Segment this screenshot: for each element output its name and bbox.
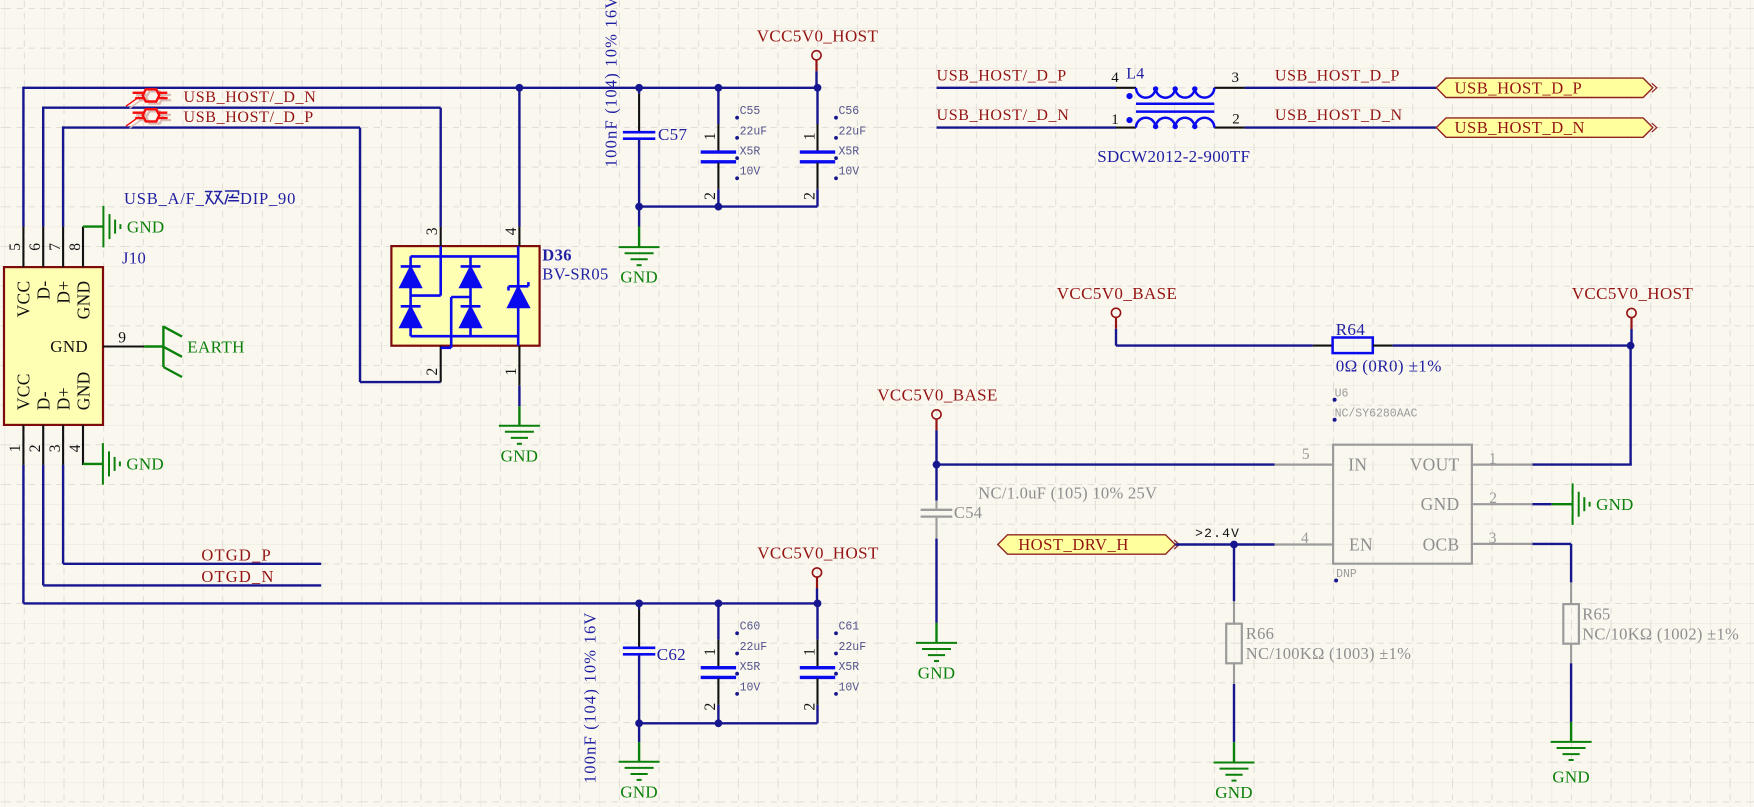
- svg-text:USB_HOST/_D_N: USB_HOST/_D_N: [184, 89, 317, 106]
- svg-text:USB_HOST_D_P: USB_HOST_D_P: [1455, 78, 1583, 97]
- GND under D36 pin1: [518, 406, 520, 426]
- junction (718.4,87.8): [715, 84, 723, 92]
- wire USB_HOST/_D_P from J10 pin7 to D36 pin2: [63, 126, 360, 128]
- svg-text:C54: C54: [954, 503, 982, 522]
- junction (639.1,206.6): [635, 203, 643, 211]
- J10 pin 7: [62, 227, 64, 268]
- svg-text:4: 4: [1301, 530, 1309, 547]
- svg-text:OTGD_P: OTGD_P: [201, 545, 271, 564]
- junction (718.4,206.6): [715, 203, 723, 211]
- junction (639.1,87.8): [635, 84, 643, 92]
- svg-text:DIP_90: DIP_90: [240, 189, 296, 208]
- svg-text:3: 3: [1232, 70, 1240, 86]
- junction (639.1,603.4): [635, 600, 643, 608]
- svg-text:GND: GND: [73, 281, 93, 320]
- svg-text:C55: C55: [740, 105, 761, 118]
- svg-text:22uF: 22uF: [839, 125, 867, 138]
- svg-text:OTGD_N: OTGD_N: [201, 567, 274, 586]
- svg-text:>2.4V: >2.4V: [1195, 526, 1240, 541]
- wire OCB to R65: [1532, 543, 1571, 545]
- junction (817.5,87.8): [814, 84, 822, 92]
- U6 pin 4 EN: [1275, 543, 1334, 545]
- svg-text:D-: D-: [34, 281, 54, 300]
- junction (1630.6,345.6): [1627, 342, 1635, 350]
- svg-text:GND: GND: [620, 782, 657, 801]
- svg-text:USB_HOST_D_N: USB_HOST_D_N: [1275, 107, 1403, 124]
- svg-text:GND: GND: [73, 371, 93, 410]
- svg-text:C57: C57: [658, 125, 687, 144]
- svg-text:R64: R64: [1336, 320, 1366, 339]
- svg-text:22uF: 22uF: [740, 125, 768, 138]
- svg-text:USB_HOST_D_P: USB_HOST_D_P: [1275, 67, 1400, 84]
- D36 pin 2: [440, 346, 442, 382]
- svg-text:USB_HOST/_D_N: USB_HOST/_D_N: [937, 107, 1070, 124]
- U6 pin 1 VOUT: [1472, 464, 1533, 466]
- svg-text:USB_HOST/_D_P: USB_HOST/_D_P: [937, 67, 1067, 84]
- svg-text:VCC: VCC: [14, 373, 34, 410]
- J10 pin 1: [22, 425, 24, 465]
- wire IN net: [937, 463, 1275, 465]
- svg-text:GND: GND: [501, 446, 538, 465]
- svg-text:C60: C60: [740, 621, 761, 634]
- GND under R66: [1233, 742, 1235, 762]
- svg-text:2: 2: [27, 444, 44, 452]
- svg-text:22uF: 22uF: [839, 641, 867, 654]
- D36 pin 4: [518, 88, 520, 227]
- svg-text:X5R: X5R: [839, 146, 860, 159]
- capacitor C54 (NC, gray): [935, 465, 937, 501]
- L4 pins black: [1116, 87, 1136, 89]
- svg-text:D-: D-: [34, 391, 54, 410]
- wire OTGD_N from J10 pin2: [42, 465, 44, 586]
- svg-text:NC/1.0uF (105) 10% 25V: NC/1.0uF (105) 10% 25V: [978, 483, 1157, 502]
- GND under C57: [638, 207, 640, 227]
- GND under C54: [935, 623, 937, 643]
- svg-text:X5R: X5R: [740, 661, 761, 674]
- svg-text:HOST_DRV_H: HOST_DRV_H: [1018, 535, 1129, 554]
- svg-text:10V: 10V: [839, 681, 860, 694]
- svg-text:DNP: DNP: [1336, 568, 1357, 581]
- resistor R64: [1313, 345, 1333, 347]
- GND at U6 pin2 (rotated): [1532, 503, 1551, 505]
- wire L4 pin2 to port USB_HOST_D_N: [1245, 126, 1437, 128]
- svg-text:X5R: X5R: [740, 146, 761, 159]
- svg-text:1: 1: [503, 367, 520, 375]
- capacitor C60: [717, 603, 719, 639]
- svg-text:100nF (104) 10% 16V: 100nF (104) 10% 16V: [602, 0, 621, 167]
- resistor R65 (NC, gray): [1570, 582, 1572, 604]
- svg-text:C62: C62: [657, 645, 686, 664]
- svg-text:GND: GND: [1421, 494, 1460, 514]
- junction (936.5,464.6): [933, 461, 941, 469]
- svg-text:1: 1: [702, 132, 719, 140]
- wire USB_HOST/_D_N into L4 pin1: [937, 126, 1117, 128]
- svg-text:NC/SY6280AAC: NC/SY6280AAC: [1335, 407, 1418, 420]
- U6 pin 2 GND: [1472, 503, 1533, 505]
- J10 pin 8: [82, 227, 84, 268]
- U6 pin 5 IN: [1275, 464, 1334, 466]
- svg-text:VCC5V0_BASE: VCC5V0_BASE: [1057, 284, 1178, 303]
- svg-text:10V: 10V: [740, 681, 761, 694]
- svg-text:2: 2: [424, 367, 441, 375]
- J10 pin 3: [62, 425, 64, 465]
- svg-text:VCC5V0_HOST: VCC5V0_HOST: [1572, 284, 1694, 303]
- svg-text:3: 3: [424, 227, 441, 235]
- svg-text:VCC5V0_HOST: VCC5V0_HOST: [757, 544, 879, 563]
- svg-text:100nF (104) 10% 16V: 100nF (104) 10% 16V: [581, 611, 600, 783]
- J10 pin 5: [22, 227, 24, 268]
- svg-text:6: 6: [27, 243, 44, 251]
- port USB_HOST_D_P: [1436, 78, 1653, 97]
- J10 pin 4: [82, 425, 84, 465]
- D36 pin 3: [440, 227, 442, 247]
- junction (718.4,603.4): [715, 600, 723, 608]
- svg-text:IN: IN: [1348, 455, 1367, 475]
- svg-text:U6: U6: [1335, 387, 1349, 400]
- svg-text:D+: D+: [53, 387, 73, 410]
- svg-text:SDCW2012-2-900TF: SDCW2012-2-900TF: [1097, 147, 1250, 166]
- svg-text:2: 2: [1232, 112, 1240, 128]
- svg-text:D36: D36: [542, 246, 572, 265]
- svg-text:4: 4: [67, 444, 84, 452]
- capacitor C56: [816, 88, 818, 124]
- svg-text:OCB: OCB: [1423, 534, 1460, 554]
- wire USB_HOST/_D_N from J10 pin6 to D36 pin3: [43, 106, 441, 108]
- svg-text:GND: GND: [50, 337, 88, 356]
- svg-text:1: 1: [702, 648, 719, 656]
- junction (519.4,87.8): [516, 84, 524, 92]
- svg-text:1: 1: [7, 444, 24, 452]
- resistor R66 (NC, gray): [1233, 601, 1235, 623]
- svg-text:VCC5V0_HOST: VCC5V0_HOST: [757, 26, 879, 45]
- svg-text:2: 2: [1489, 490, 1497, 507]
- differential pair marker on D_N: [130, 91, 172, 108]
- junction (639.1,723.3): [635, 719, 643, 727]
- GND symbol at J10 pin 4 (rotated): [82, 464, 84, 465]
- svg-text:USB_A/F_: USB_A/F_: [124, 189, 205, 208]
- svg-text:GND: GND: [127, 217, 164, 236]
- J10 pin 6: [42, 227, 44, 268]
- junction (718.4,723.3): [715, 719, 723, 727]
- svg-text:2: 2: [702, 702, 719, 710]
- svg-text:EARTH: EARTH: [187, 337, 245, 356]
- svg-text:4: 4: [503, 227, 520, 235]
- svg-text:USB_HOST_D_N: USB_HOST_D_N: [1455, 118, 1585, 137]
- svg-text:1: 1: [801, 648, 818, 656]
- wire down to VOUT: [1629, 346, 1631, 465]
- svg-text:2: 2: [801, 702, 818, 710]
- svg-text:9: 9: [118, 330, 126, 347]
- wire VCC5V0_BASE to R64: [1116, 344, 1313, 346]
- svg-text:8: 8: [67, 243, 84, 251]
- wire J10 pin1 to bottom rail: [22, 465, 24, 604]
- port HOST_DRV_H: [998, 535, 1175, 554]
- svg-text:GND: GND: [1596, 495, 1633, 514]
- svg-text:3: 3: [1489, 530, 1497, 547]
- capacitor C61: [816, 603, 818, 639]
- svg-text:L4: L4: [1126, 65, 1144, 82]
- svg-text:1: 1: [1489, 450, 1497, 467]
- svg-text:VCC5V0_BASE: VCC5V0_BASE: [877, 386, 998, 405]
- svg-text:NC/100KΩ (1003) ±1%: NC/100KΩ (1003) ±1%: [1246, 644, 1411, 663]
- capacitor C55: [717, 88, 719, 124]
- wire down to R66: [1233, 545, 1235, 602]
- svg-text:1: 1: [801, 132, 818, 140]
- svg-text:BV-SR05: BV-SR05: [542, 265, 608, 284]
- svg-text:0Ω (0R0) ±1%: 0Ω (0R0) ±1%: [1336, 357, 1442, 376]
- svg-text:22uF: 22uF: [740, 641, 768, 654]
- capacitor C62: [638, 603, 640, 609]
- svg-text:R66: R66: [1246, 624, 1274, 643]
- bottom rail of bottom cap bank: [639, 722, 817, 724]
- svg-text:GND: GND: [1552, 768, 1589, 787]
- capacitor C57: [638, 88, 640, 94]
- svg-text:C56: C56: [839, 105, 860, 118]
- junction (1234,544.5): [1230, 541, 1238, 549]
- port USB_HOST_D_N: [1436, 118, 1653, 137]
- wire R64 to VCC5V0_HOST column: [1393, 344, 1631, 346]
- svg-text:J10: J10: [122, 249, 146, 268]
- svg-text:10V: 10V: [740, 166, 761, 179]
- wire VCC rail from J10 pin5 to VCC5V0_HOST: [23, 87, 817, 89]
- svg-text:R65: R65: [1582, 605, 1610, 624]
- U6 body: [1333, 445, 1472, 564]
- differential pair marker on D_P: [130, 111, 172, 128]
- svg-text:4: 4: [1111, 70, 1119, 86]
- wire L4 pin3 to port USB_HOST_D_P: [1245, 87, 1437, 89]
- diode array D36 body: [391, 246, 539, 346]
- svg-text:GND: GND: [126, 455, 163, 474]
- svg-text:X5R: X5R: [839, 661, 860, 674]
- svg-text:5: 5: [1302, 446, 1310, 463]
- svg-text:GND: GND: [1215, 783, 1252, 802]
- CJK glyphs 双层 (drawn): [206, 191, 239, 204]
- D36 pin 1: [518, 346, 520, 386]
- svg-text:5: 5: [7, 243, 24, 251]
- wire OTGD_P from J10 pin3: [62, 465, 64, 564]
- connector J10 body: [4, 267, 103, 425]
- wire USB_HOST/_D_P into L4 pin4: [937, 87, 1117, 89]
- GND symbol at J10 pin 8 (rotated): [82, 227, 84, 228]
- svg-text:GND: GND: [918, 664, 955, 683]
- wire EN net: [1175, 543, 1274, 545]
- svg-text:3: 3: [47, 444, 64, 452]
- J10 pin 2: [42, 425, 44, 465]
- U6 pin 3 OCB: [1472, 543, 1533, 545]
- svg-text:2: 2: [801, 192, 818, 200]
- D36 internal diodes: [401, 246, 529, 348]
- svg-text:7: 7: [47, 243, 64, 251]
- J10 pin 9 wire and EARTH symbol: [103, 345, 144, 347]
- svg-text:C61: C61: [839, 621, 860, 634]
- GND under C62: [638, 723, 640, 742]
- GND under R65: [1570, 722, 1572, 742]
- svg-text:1: 1: [1111, 112, 1119, 128]
- svg-text:10V: 10V: [839, 166, 860, 179]
- svg-text:VCC: VCC: [14, 281, 34, 318]
- junction (817.5,603.4): [814, 600, 822, 608]
- svg-text:NC/10KΩ (1002) ±1%: NC/10KΩ (1002) ±1%: [1582, 625, 1739, 644]
- svg-text:D+: D+: [53, 281, 73, 304]
- svg-text:GND: GND: [620, 268, 657, 287]
- svg-text:VOUT: VOUT: [1410, 455, 1460, 475]
- svg-text:EN: EN: [1349, 534, 1373, 554]
- svg-text:2: 2: [702, 192, 719, 200]
- L4 windings: [1136, 88, 1214, 128]
- bottom rail of top cap bank: [639, 205, 817, 207]
- svg-text:USB_HOST/_D_P: USB_HOST/_D_P: [184, 109, 314, 126]
- L4 polarity dots: [1126, 93, 1132, 99]
